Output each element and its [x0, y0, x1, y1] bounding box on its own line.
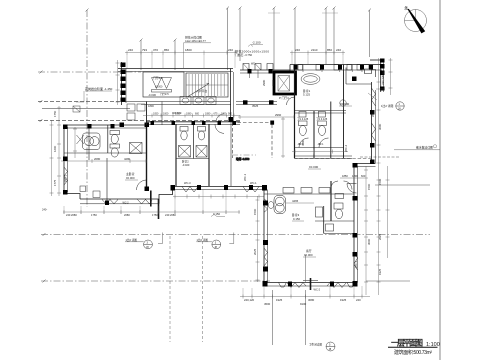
south door opening threshold left: [279, 283, 287, 288]
right wing east wall: [371, 82, 373, 163]
dim line below corridor: [238, 116, 294, 118]
rotated dims left: [53, 110, 57, 186]
svg-text:1比2 详图: 1比2 详图: [126, 238, 138, 242]
porch step box: [73, 106, 80, 112]
dim row mid: [143, 114, 240, 118]
left wall window zigzag lower wing west: [264, 248, 268, 266]
column dots left wall: [121, 63, 126, 103]
dim line inner vertical: [73, 127, 77, 158]
wall notch ticks top band: [250, 65, 363, 79]
svg-text:3525: 3525: [252, 104, 259, 108]
axis stub y155: [232, 154, 256, 156]
svg-text:2080: 2080: [94, 157, 101, 161]
mid south wall: [173, 186, 265, 188]
corridor door arc: [287, 97, 295, 105]
stair treads: [186, 74, 228, 97]
step up to mid south wall: [159, 187, 173, 204]
basin row corridor: [180, 97, 216, 105]
canopy dashed rect: [232, 123, 272, 159]
bath dim line: [292, 150, 348, 154]
north arrow: [404, 5, 427, 34]
svg-text:门厅#-5: 门厅#-5: [160, 92, 169, 96]
title block: [388, 339, 440, 357]
svg-text:5.125: 5.125: [303, 93, 310, 97]
svg-text:600: 600: [361, 174, 366, 178]
column dots top band: [248, 69, 252, 74]
column dots mid south wall: [171, 185, 176, 191]
bath band east wall: [330, 102, 332, 159]
lower wing east wall: [353, 164, 355, 287]
svg-text:-0.020: -0.020: [182, 163, 190, 167]
svg-text:793: 793: [142, 48, 147, 52]
closet rects row: [283, 188, 330, 194]
svg-text:1500: 1500: [253, 208, 257, 215]
svg-text:P 门厅4: P 门厅4: [279, 96, 289, 100]
svg-text:2960: 2960: [275, 113, 282, 117]
interior wall vertical c: [106, 158, 108, 203]
svg-text:1200: 1200: [53, 145, 57, 152]
grid axis vertical B: [140, 40, 142, 70]
bottom dim line left wing: [63, 211, 240, 213]
svg-text:3080: 3080: [378, 123, 382, 130]
svg-text:3000: 3000: [367, 238, 371, 245]
canopy corner column: [270, 121, 274, 125]
interior vertical in living room: [305, 255, 307, 283]
svg-text:3080: 3080: [308, 298, 315, 302]
svg-text:±0.000: ±0.000: [155, 86, 163, 89]
detail circle 1: [144, 240, 153, 249]
south door opening threshold right: [347, 283, 355, 288]
left vertical dim line: [58, 106, 60, 196]
wall top band mid: [240, 69, 290, 71]
svg-text:370: 370: [153, 48, 158, 52]
corridor wall below elevator: [236, 101, 277, 103]
bedroom1 west wall: [294, 65, 296, 159]
south wall window zigzag left: [287, 283, 306, 288]
mid south wall window zigzag 2: [243, 187, 259, 193]
bath divider wall: [313, 111, 315, 158]
left wing north wall right part: [146, 121, 240, 123]
left wing southwest corner step: [64, 194, 80, 200]
corridor columns: [243, 100, 248, 104]
left wing south wall: [80, 198, 159, 200]
window zigzag south 2: [138, 200, 153, 204]
bed3 bath west wall: [330, 181, 332, 221]
grid axis horizontal 6 dash-dot: [41, 280, 270, 282]
svg-text:240: 240: [336, 48, 341, 52]
column dot right wing: [352, 77, 357, 82]
terrace parapet notches: [243, 64, 273, 71]
svg-text:建筑面积:500.73m²: 建筑面积:500.73m²: [394, 349, 432, 356]
bath partition wall c: [193, 124, 195, 158]
svg-text:1080: 1080: [205, 113, 211, 116]
svg-text:1750: 1750: [152, 213, 158, 217]
svg-text:1080: 1080: [186, 113, 192, 116]
svg-text:240-: 240-: [42, 208, 47, 212]
west wall columns: [263, 201, 268, 272]
grid axis horizontal right 8: [366, 280, 410, 282]
door arc SE corner: [347, 184, 357, 194]
svg-text:240: 240: [295, 48, 300, 52]
svg-text:1500: 1500: [367, 183, 371, 190]
svg-text:-0.030: -0.030: [148, 93, 156, 97]
grid axis vertical E: [273, 8, 275, 70]
svg-text:900: 900: [228, 113, 233, 116]
grid axis horizontal 2 dashed: [38, 101, 125, 103]
dim numbers mid: [153, 113, 233, 116]
grid axis horizontal 4 dashed: [38, 120, 240, 122]
stair outline: [186, 73, 228, 97]
svg-text:一层平面图: 一层平面图: [391, 339, 423, 348]
column dots east wall lower wing: [353, 163, 358, 168]
svg-text:卧室2: 卧室2: [182, 160, 189, 164]
fixtures near south wall: [93, 191, 100, 198]
extra right dim ticks: [364, 180, 390, 265]
dim line under mid south wall: [173, 195, 264, 199]
svg-text:1925: 1925: [378, 268, 382, 275]
south wall window zigzag right: [327, 283, 346, 288]
washer boxes: [127, 104, 145, 120]
svg-text:入户平台: 入户平台: [196, 89, 207, 93]
detail circle 2: [212, 240, 221, 249]
svg-text:-2.100: -2.100: [252, 41, 261, 45]
svg-text:散水做法详图: 散水做法详图: [416, 145, 433, 149]
svg-text:卫生间详图: 卫生间详图: [309, 343, 322, 347]
svg-text:4-E2-10M-1E3-T7: 4-E2-10M-1E3-T7: [185, 39, 206, 43]
detail circle small mid: [340, 100, 346, 106]
corridor partitions: [146, 102, 148, 126]
svg-text:1比2 详图: 1比2 详图: [381, 104, 393, 108]
svg-text:240,245,60: 240,245,60: [381, 71, 385, 85]
svg-text:1800: 1800: [148, 104, 154, 108]
svg-text:675: 675: [214, 113, 219, 116]
svg-text:0.150: 0.150: [293, 217, 300, 221]
bath3 south wall2: [324, 233, 354, 235]
south wall stub down: [158, 199, 160, 219]
X door WC left wing: [77, 135, 85, 144]
NE stepped wall: [362, 65, 376, 78]
right wing south wall: [354, 163, 376, 165]
annotation line right dashed: [360, 156, 399, 158]
bath lobby wall: [295, 147, 344, 149]
svg-text:240: 240: [356, 298, 361, 302]
svg-text:WC-: WC-: [251, 63, 256, 66]
svg-text:J8#-1: J8#-1: [318, 143, 325, 146]
grid axis vertical K dashed bottom: [202, 236, 204, 342]
grid axis vertical L bottom: [272, 290, 274, 345]
grid axis vertical D2: [239, 8, 241, 61]
interior wall vertical b dark: [146, 125, 148, 191]
grid axis vertical A: [86, 10, 88, 207]
entry double door X: [152, 78, 172, 93]
svg-text:WC-1: WC-1: [250, 181, 257, 185]
toilet bath1: [299, 121, 308, 136]
right vertical dim line inner: [365, 166, 367, 295]
svg-text:1925: 1925: [276, 298, 283, 302]
svg-text:4500: 4500: [264, 302, 271, 306]
svg-text:1750: 1750: [91, 213, 97, 217]
grid axis vertical F: [294, 8, 296, 70]
svg-text:WC-2: WC-2: [123, 202, 130, 205]
left outer dim line: [116, 60, 120, 105]
toilet pair left wing: [110, 131, 120, 158]
svg-text:WC-3: WC-3: [184, 181, 191, 185]
bottom dim line lower wing: [240, 296, 370, 298]
svg-text:±0.000: ±0.000: [304, 253, 313, 257]
svg-text:240: 240: [228, 48, 233, 52]
svg-text:1850: 1850: [342, 174, 348, 178]
svg-text:2980: 2980: [262, 79, 266, 86]
svg-text:门厅#-5: 门厅#-5: [153, 76, 163, 80]
bath3 door arc: [331, 181, 338, 188]
grid axis horizontal 3: [42, 107, 130, 109]
bedroom1 floor divider: [295, 110, 347, 112]
svg-text:0.150: 0.150: [213, 212, 220, 216]
svg-text:850: 850: [164, 48, 169, 52]
svg-text:900 600: 900 600: [172, 111, 182, 115]
svg-text:WC-2: WC-2: [314, 288, 321, 292]
svg-text:5: 5: [329, 344, 331, 347]
svg-text:门槛石 -3.750: 门槛石 -3.750: [235, 53, 253, 57]
bathtub oval top: [301, 74, 320, 85]
svg-text:1000: 1000: [163, 113, 169, 116]
closet rect west: [80, 186, 86, 192]
svg-text:±0.000: ±0.000: [126, 176, 135, 180]
bath south wall: [176, 158, 209, 160]
interior wall vertical bath: [107, 125, 109, 153]
grid axis vertical C: [174, 40, 176, 70]
bathtub left wing: [83, 133, 101, 150]
svg-text:卫2 4.125: 卫2 4.125: [316, 117, 328, 121]
wall top band right: [290, 64, 382, 66]
left lower wing vertical dim: [257, 196, 259, 282]
bath3 fixtures: [316, 194, 344, 232]
svg-text:240,120: 240,120: [244, 298, 255, 302]
detail circle right: [396, 102, 404, 110]
door arcs baths: [299, 138, 309, 148]
west wall window zigzag: [64, 167, 68, 185]
NE columns: [380, 59, 385, 91]
svg-text:1925: 1925: [340, 298, 347, 302]
lower wing top wall: [264, 193, 354, 195]
svg-text:4280: 4280: [124, 157, 131, 161]
svg-text:1比2 详图: 1比2 详图: [197, 238, 209, 242]
wall right of stair: [230, 69, 232, 121]
bath band east wall 2: [343, 65, 345, 159]
svg-text:北: 北: [404, 5, 408, 11]
svg-text:240 2080: 240 2080: [165, 213, 176, 217]
svg-text:±0.000: ±0.000: [309, 165, 318, 169]
grid axis vertical M bottom: [305, 290, 307, 345]
column dots south wall lower wing: [263, 281, 268, 287]
kitchen corner wall: [345, 68, 347, 85]
column dots left wing: [63, 125, 68, 130]
bath3 inner wall: [323, 206, 325, 234]
grid axis horizontal right 7: [375, 184, 430, 186]
toilet bath2: [318, 121, 327, 136]
svg-text:WC-1: WC-1: [243, 173, 247, 181]
bath partition wall a: [175, 124, 177, 186]
shower stall X 1: [179, 146, 191, 158]
lower wing south wall: [264, 282, 357, 284]
svg-text:1050: 1050: [221, 113, 227, 116]
wall top-left-wing left: [121, 62, 123, 105]
grid axis vertical J dashed bottom: [169, 236, 171, 342]
svg-text:WC-1: WC-1: [354, 260, 358, 268]
entry hall outline: [143, 72, 184, 97]
svg-text:车库 -0.550: 车库 -0.550: [236, 157, 250, 161]
columns on north wall: [151, 121, 237, 125]
east wall window zigzag 2: [372, 123, 376, 141]
grid axis vertical I: [369, 10, 371, 57]
pier notches top wall: [298, 65, 362, 71]
svg-text:1500: 1500: [378, 178, 382, 185]
east wall window: [354, 252, 358, 270]
window zigzag south 1: [102, 200, 118, 204]
axis top tiny labels: [268, 12, 280, 14]
detail circle 3 bottom: [326, 342, 335, 351]
shower stall X 2: [196, 146, 207, 158]
toilet mid 2: [198, 127, 206, 141]
grid axis horizontal 1: [38, 71, 141, 73]
NE dim line: [390, 58, 392, 95]
svg-text:2025: 2025: [378, 233, 382, 240]
svg-text:850: 850: [327, 48, 332, 52]
svg-text:4465: 4465: [292, 199, 299, 203]
sheet border: [439, 0, 441, 360]
east wall window zigzag 1: [372, 88, 376, 106]
bedroom2 door arc: [215, 124, 224, 133]
bedroom3 bathtub: [274, 196, 286, 214]
svg-text:2025: 2025: [253, 248, 257, 255]
extension lines bottom dims lower wing: [243, 286, 362, 297]
svg-text:±0.000: ±0.000: [340, 102, 349, 106]
svg-text:1775: 1775: [53, 179, 57, 186]
toilet mid 1: [180, 127, 188, 141]
left wing north wall: [64, 124, 146, 126]
svg-text:2110: 2110: [311, 48, 318, 52]
svg-text:1050: 1050: [153, 113, 159, 116]
svg-text:1800: 1800: [185, 48, 192, 52]
dim line interior: [61, 159, 147, 163]
door arc corridor: [216, 114, 224, 122]
svg-text:1: 1: [399, 103, 401, 106]
shower X left wing: [130, 143, 143, 154]
elevator shaft: [273, 72, 296, 94]
dark stub 2: [150, 191, 152, 207]
svg-text:WC-2: WC-2: [344, 144, 348, 152]
corridor north wall: [121, 101, 230, 103]
svg-text:花岗岩台阶面 -1.450: 花岗岩台阶面 -1.450: [85, 86, 113, 91]
svg-text:J8: J8: [329, 348, 332, 351]
south door center post: [310, 278, 312, 290]
dim row right mid: [340, 177, 368, 179]
svg-text:1750: 1750: [53, 110, 57, 117]
svg-text:4380: 4380: [301, 139, 305, 146]
wall top-left-wing top: [118, 68, 233, 70]
bath band south wall: [295, 155, 353, 157]
svg-text:240 2080: 240 2080: [66, 213, 77, 217]
dashed line right of baths: [294, 158, 371, 160]
left wing west wall: [63, 125, 65, 195]
svg-text:9100: 9100: [300, 302, 307, 306]
lower wing west wall: [263, 187, 265, 287]
svg-text:240: 240: [128, 48, 133, 52]
svg-text:WC-2: WC-2: [371, 109, 375, 117]
extension lines bottom dims left wing: [64, 190, 226, 214]
bath partition wall b: [208, 124, 210, 186]
rotated dims right: [64, 71, 386, 275]
extension lines top dims: [127, 54, 343, 68]
bed3 bath south wall: [315, 220, 354, 222]
svg-text:1200: 1200: [352, 174, 358, 178]
door arc master: [137, 180, 147, 190]
mid south wall window zigzag 1: [182, 187, 198, 193]
svg-text:WC-1: WC-1: [64, 174, 68, 182]
grid axis horizontal 5 dash-dot long: [41, 234, 430, 236]
grid axis vertical H: [333, 8, 335, 64]
right vertical dim line outer: [378, 58, 380, 295]
bedroom2 east wall: [230, 120, 232, 186]
top dim line right: [290, 52, 345, 54]
basin bath2: [318, 112, 325, 118]
top dim line left: [125, 52, 237, 54]
svg-text:卫1 4.125: 卫1 4.125: [297, 117, 309, 121]
interior wall horizontal d: [64, 152, 147, 154]
corridor hall dim vertical: [281, 117, 285, 158]
svg-text:600: 600: [195, 113, 200, 116]
grid axis vertical G: [325, 8, 327, 64]
interior wall vertical a: [88, 125, 90, 160]
grid axis vertical D: [227, 8, 229, 70]
northeast corner room: [370, 59, 384, 61]
axis end ticks: [40, 7, 372, 283]
basin bath1: [299, 112, 306, 118]
svg-text:2080: 2080: [124, 213, 130, 217]
column dots east wall right wing: [370, 110, 375, 115]
